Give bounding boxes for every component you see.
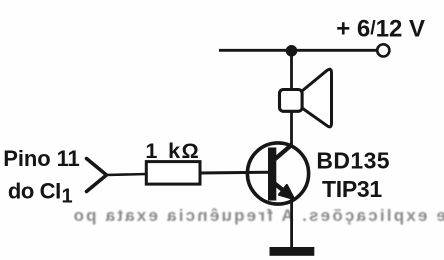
svg-text:BD135: BD135 <box>316 147 390 173</box>
svg-text:1 kΩ: 1 kΩ <box>145 139 200 163</box>
svg-text:TIP31: TIP31 <box>322 176 382 202</box>
svg-text:1: 1 <box>62 186 73 208</box>
svg-text:+ 6/12 V: + 6/12 V <box>336 15 425 42</box>
svg-text:Pino 11: Pino 11 <box>3 146 79 171</box>
svg-text:do CI: do CI <box>8 178 61 203</box>
svg-text:e explicações. A frequência ex: e explicações. A frequência exata po <box>71 206 444 225</box>
